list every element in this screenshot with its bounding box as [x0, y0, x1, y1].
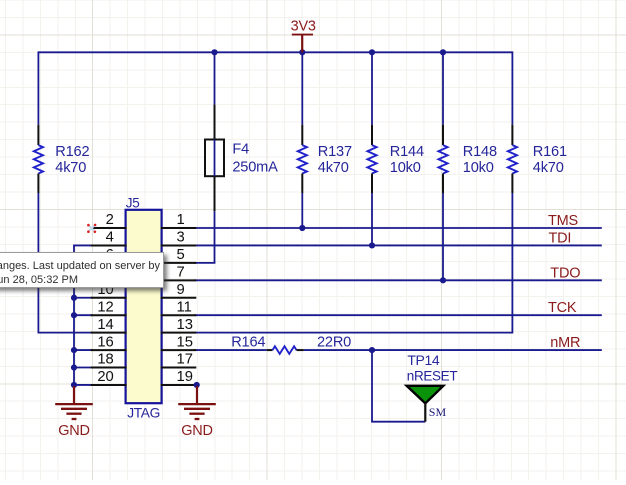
pin 6	[91, 247, 127, 263]
svg-text:nMR: nMR	[550, 335, 580, 351]
junction pin10/GND bus	[71, 295, 77, 301]
svg-text:TDO: TDO	[550, 265, 580, 281]
svg-text:16: 16	[97, 334, 113, 350]
svg-text:3: 3	[177, 230, 185, 246]
svg-text:TDI: TDI	[549, 230, 572, 246]
junction TMS/R137	[299, 225, 305, 231]
svg-text:19: 19	[177, 369, 193, 385]
junction TDO/R148	[440, 277, 446, 283]
pin 9	[161, 282, 197, 298]
svg-text:TCK: TCK	[548, 300, 577, 316]
wire R144 branch (3V3 rail to TDI net)	[371, 52, 373, 245]
net label TCK	[548, 300, 577, 316]
svg-text:7: 7	[177, 265, 185, 281]
wire F4 branch (3V3 rail to pin 5)	[194, 52, 215, 263]
svg-text:nRESET: nRESET	[407, 369, 458, 384]
svg-text:3V3: 3V3	[291, 19, 316, 35]
svg-text:10k0: 10k0	[390, 160, 421, 176]
svg-text:4: 4	[106, 230, 114, 246]
power port 3V3	[291, 19, 316, 53]
pin 8	[91, 265, 127, 281]
wire pin 13 to R161 branch	[194, 332, 512, 334]
wire R137 branch (3V3 rail to TMS net)	[301, 52, 303, 228]
no-ERC marker at pin 2	[87, 224, 96, 234]
svg-text:250mA: 250mA	[232, 160, 278, 176]
wire TCK (pin 11 to right edge)	[194, 314, 602, 316]
pin 5	[161, 247, 197, 263]
svg-text:4k70: 4k70	[55, 160, 86, 176]
svg-text:GND: GND	[181, 423, 213, 439]
resistor R148	[438, 125, 497, 193]
tooltip overlay: sync message	[0, 252, 164, 288]
svg-text:TP14: TP14	[407, 352, 439, 368]
junction R137 branch	[299, 49, 305, 55]
pin 13	[161, 317, 197, 333]
resistor R164	[231, 334, 351, 354]
pin 1	[161, 212, 197, 228]
svg-text:GND: GND	[58, 423, 90, 439]
wire R148 branch (3V3 rail to TDO net)	[442, 52, 444, 280]
fuse F4	[205, 105, 278, 212]
designator J5	[126, 195, 140, 210]
svg-text:17: 17	[177, 352, 193, 368]
svg-text:R164: R164	[231, 334, 265, 350]
junction pin20/GND bus	[71, 382, 77, 388]
net label TMS	[548, 213, 578, 229]
test point TP14 designator	[407, 352, 439, 368]
svg-text:9: 9	[177, 282, 185, 298]
resistor R144	[367, 125, 424, 193]
svg-text:12: 12	[97, 299, 113, 315]
pin 14	[91, 317, 127, 333]
svg-text:11: 11	[177, 299, 192, 315]
resistor R162	[34, 125, 90, 193]
resistor R137	[298, 125, 352, 193]
svg-text:15: 15	[177, 334, 193, 350]
junction pin16/GND bus	[71, 347, 77, 353]
svg-text:2: 2	[106, 212, 114, 228]
junction pin19/GND	[194, 382, 200, 388]
svg-text:13: 13	[177, 317, 193, 333]
svg-text:18: 18	[97, 352, 113, 368]
pin 3	[161, 230, 197, 246]
svg-text:F4: F4	[232, 142, 249, 158]
pin 11	[161, 299, 197, 315]
svg-text:10k0: 10k0	[463, 160, 494, 176]
wire R161 branch (3V3 rail to pin 13)	[511, 51, 513, 333]
wire TMS (pin 1 to right edge)	[194, 227, 602, 229]
svg-text:R137: R137	[318, 144, 352, 160]
pin 19	[161, 369, 197, 385]
test point TP14 triangle	[407, 386, 444, 422]
net label nMR	[550, 335, 580, 351]
svg-text:1: 1	[177, 212, 185, 228]
pin 20	[91, 369, 127, 385]
svg-text:SM: SM	[429, 405, 447, 419]
pin 16	[91, 334, 127, 350]
wire TDI (pin 3 to right edge)	[194, 244, 602, 246]
svg-text:20: 20	[97, 369, 113, 385]
junction F4 branch	[211, 49, 217, 55]
pin 10	[91, 282, 127, 298]
net label TDO	[550, 265, 580, 281]
wire nMR (pin 15 through R164 to right edge)	[194, 349, 602, 351]
ground GND left	[55, 386, 93, 439]
pin 17	[161, 352, 197, 368]
svg-text:TMS: TMS	[548, 213, 578, 229]
junction TDI/R144	[369, 242, 375, 248]
pin 7	[161, 265, 197, 281]
pin 12	[91, 299, 127, 315]
pin 15	[161, 334, 197, 350]
ground GND right	[178, 386, 216, 439]
wire top 3V3 rail	[38, 51, 512, 53]
wire TDO (pin 7 to right edge)	[194, 279, 602, 281]
svg-text:R144: R144	[390, 144, 424, 160]
pin 4	[91, 230, 127, 246]
test point TP14 SM marking	[429, 405, 447, 419]
wire R162 branch (3V3 rail to pin 14)	[38, 51, 93, 332]
pin 18	[91, 352, 127, 368]
test point TP14 net name nRESET	[407, 369, 458, 384]
wire TP14 branch (nMR junction to test point)	[371, 350, 425, 422]
svg-text:R161: R161	[533, 144, 567, 160]
net label TDI	[549, 230, 572, 246]
junction R144 branch	[369, 49, 375, 55]
wire GND bus (pin 4 down left side to GND)	[73, 245, 93, 386]
svg-text:R162: R162	[55, 144, 89, 160]
connector J5 body	[126, 210, 162, 403]
svg-text:R148: R148	[463, 144, 497, 160]
value JTAG	[127, 405, 160, 420]
svg-text:J5: J5	[126, 195, 140, 210]
junction pin12/GND bus	[71, 312, 77, 318]
svg-text:4k70: 4k70	[533, 160, 564, 176]
svg-text:JTAG: JTAG	[127, 405, 160, 420]
resistor R161	[508, 125, 567, 193]
junction pin18/GND bus	[71, 364, 77, 370]
svg-text:22R0: 22R0	[317, 334, 351, 350]
pin 2	[91, 212, 127, 228]
junction nMR/TP14	[369, 347, 375, 353]
svg-text:4k70: 4k70	[318, 160, 349, 176]
junction R148 branch	[440, 49, 446, 55]
svg-text:14: 14	[97, 317, 113, 333]
svg-text:5: 5	[177, 247, 185, 263]
